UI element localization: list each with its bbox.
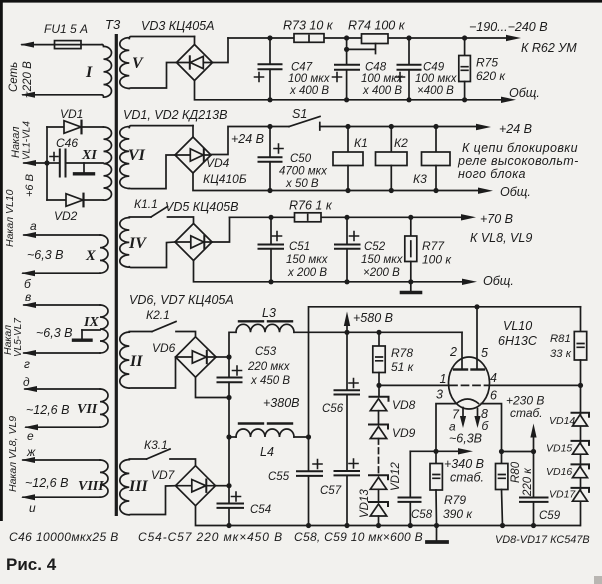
wire mains top (20, 42, 55, 48)
svg-text:К1.1: К1.1 (134, 197, 158, 211)
svg-text:VD8: VD8 (392, 398, 416, 412)
junction dots bottom rail (226, 523, 536, 528)
svg-text:X: X (85, 248, 96, 264)
wire bridge + to top rail (213, 38, 229, 63)
resistor R74 (rheostat) (344, 19, 406, 54)
svg-text:VD12: VD12 (390, 462, 402, 491)
wire bridge + up to +70V rail (212, 217, 230, 242)
svg-text:С55: С55 (268, 471, 290, 483)
svg-text:е: е (27, 429, 34, 443)
svg-text:100 мкх: 100 мкх (288, 73, 331, 85)
svg-text:VD9: VD9 (392, 426, 416, 440)
svg-text:~220 В: ~220 В (22, 61, 34, 98)
node VD6 plus (226, 354, 231, 359)
winding IV (120, 218, 147, 268)
node +6V left rail (22, 127, 50, 200)
winding II (120, 332, 143, 388)
svg-text:х 450 В: х 450 В (250, 375, 290, 387)
svg-text:~12,6 В: ~12,6 В (26, 403, 69, 417)
svg-text:С58, С59 10 мк×600 В: С58, С59 10 мк×600 В (294, 530, 423, 544)
svg-text:−190...−240 В: −190...−240 В (469, 20, 548, 34)
wire +24V rail (267, 124, 491, 130)
wire R81 to VD chain (580, 385, 582, 525)
svg-text:С57: С57 (320, 485, 342, 497)
svg-text:С46 10000мкх25 В: С46 10000мкх25 В (9, 530, 119, 544)
zener VD17 (549, 488, 589, 501)
svg-text:+6 В: +6 В (24, 174, 36, 197)
zener VD16 (546, 464, 589, 478)
zener VD15 (546, 441, 589, 455)
svg-text:Общ.: Общ. (483, 274, 514, 288)
wire winding III bottom to bridge left corner (129, 486, 175, 515)
wire top lead into bridge top (194, 37, 196, 45)
svg-text:390 к: 390 к (443, 507, 473, 521)
winding V (120, 37, 195, 89)
inductor L3 (236, 306, 294, 332)
wire bridge + up to +24V rail (211, 127, 289, 155)
wire VD7 minus to bottom rail (196, 506, 580, 526)
wire L3 out to +580 node (294, 331, 309, 333)
svg-text:С52: С52 (364, 241, 386, 253)
svg-text:х 400 В: х 400 В (362, 85, 402, 97)
bridge rectifier VD7 (176, 466, 216, 506)
capacitor C51 (259, 217, 329, 281)
capacitor C52 (335, 217, 404, 281)
svg-text:ж: ж (26, 445, 36, 459)
svg-text:R81: R81 (550, 333, 571, 345)
capacitor C55 (268, 460, 322, 526)
wire top rail -190V (228, 35, 521, 41)
svg-text:С49: С49 (423, 62, 445, 74)
capacitor C49 (396, 38, 458, 100)
tube grid dashed (440, 371, 498, 386)
svg-text:+24 В: +24 В (231, 132, 264, 146)
wire bridge + to bus node (216, 485, 230, 487)
svg-text:Общ.: Общ. (509, 86, 540, 100)
bridge rectifier VD3 (177, 45, 213, 81)
resistor R75 (459, 38, 507, 100)
svg-text:реле высоковольт-: реле высоковольт- (457, 154, 579, 168)
svg-text:150 мкх: 150 мкх (361, 254, 404, 266)
svg-text:стаб.: стаб. (510, 406, 543, 420)
svg-text:R78: R78 (391, 346, 413, 360)
svg-text:V: V (132, 55, 144, 72)
capacitor C56 (322, 332, 359, 415)
svg-text:х 50 В: х 50 В (285, 178, 319, 190)
svg-text:R75: R75 (476, 56, 498, 70)
net label Сеть ~220В (8, 61, 34, 98)
wire grid line to tube pin1 (379, 384, 449, 386)
capacitor C47 (255, 38, 331, 100)
svg-text:II: II (129, 353, 143, 370)
svg-text:Накал VL10: Накал VL10 (4, 189, 16, 247)
wire mains bottom (21, 92, 102, 98)
zener VD8 (370, 385, 416, 424)
wire winding VII bottom (24, 424, 100, 430)
svg-text:R77: R77 (422, 239, 445, 253)
winding XI (81, 127, 112, 200)
wire winding VII top (23, 386, 100, 392)
capacitor C57 (320, 395, 359, 526)
border top bar (0, 0, 602, 3)
zener VD9 (369, 425, 416, 441)
svg-text:4700 мкх: 4700 мкх (279, 166, 328, 178)
svg-text:КЦ410Б: КЦ410Б (203, 172, 247, 186)
svg-text:стаб.: стаб. (450, 471, 484, 485)
resistor R78 (373, 332, 415, 388)
capacitor C59 (520, 452, 561, 526)
svg-text:С54-С57 220 мк×450 В: С54-С57 220 мк×450 В (138, 530, 283, 544)
svg-text:Т3: Т3 (105, 17, 121, 32)
svg-text:620 к: 620 к (476, 69, 506, 83)
net labels +24В (231, 122, 579, 181)
switch contact K3.1 (129, 438, 170, 459)
svg-text:~6,3 В: ~6,3 В (27, 248, 64, 262)
svg-text:S1: S1 (292, 107, 307, 121)
svg-text:3: 3 (436, 388, 443, 402)
tube cathode pin6 (481, 389, 501, 452)
svg-text:VD1: VD1 (60, 107, 83, 121)
wire winding VIII bottom (21, 494, 100, 500)
wire +340 node line (410, 448, 484, 484)
net label Накал VL8,VL9 (7, 375, 69, 515)
wire bridge - to bottom rail Общ (195, 81, 517, 104)
net labels +70В К VL8,VL9 (470, 212, 532, 245)
zener VD12 (369, 462, 402, 502)
bridge rectifier VD5 (175, 224, 212, 261)
resistor R76 (289, 199, 333, 222)
wire node up to L3 (229, 332, 236, 357)
wire contact to bridge top (170, 459, 196, 466)
capacitor C48 (333, 49, 404, 99)
svg-text:VD6: VD6 (152, 341, 176, 355)
wire winding II bottom to bridge left corner (129, 358, 175, 389)
border left bar (0, 0, 3, 521)
node +230 arrow (506, 394, 544, 452)
svg-text:в: в (25, 290, 31, 304)
svg-text:Рис. 4: Рис. 4 (6, 555, 57, 574)
corner shade (594, 576, 602, 584)
capacitor C58 (399, 451, 433, 525)
svg-text:VD8-VD17 КС547В: VD8-VD17 КС547В (495, 534, 590, 546)
capacitor C46 (47, 136, 103, 177)
svg-text:и: и (29, 501, 36, 515)
svg-text:VD17: VD17 (549, 489, 576, 501)
svg-text:R76 1 к: R76 1 к (289, 199, 333, 213)
svg-text:ного блока: ного блока (458, 167, 526, 181)
node +580 arrow (344, 311, 393, 332)
svg-text:VD2: VD2 (54, 209, 78, 223)
svg-text:Накал VL8, VL9: Накал VL8, VL9 (7, 416, 19, 492)
svg-text:VL10: VL10 (503, 319, 532, 333)
tube cathode arc (457, 399, 479, 404)
svg-text:100 мкх: 100 мкх (415, 73, 458, 85)
diode VD1 (47, 107, 103, 133)
winding III (120, 460, 149, 515)
svg-text:×200 В: ×200 В (363, 267, 400, 279)
wire winding IX top (22, 302, 100, 308)
zener VD13 (359, 489, 388, 526)
wire winding IX bottom (22, 350, 100, 356)
svg-text:~6,3В: ~6,3В (449, 432, 482, 446)
svg-text:К3.1: К3.1 (144, 438, 168, 452)
wire top lead into bridge top (192, 126, 194, 137)
wire dashed omitted diodes VD10 VD11 (378, 439, 380, 476)
svg-text:VD6, VD7 КЦ405А: VD6, VD7 КЦ405А (129, 293, 234, 307)
svg-text:VD5 КЦ405В: VD5 КЦ405В (165, 200, 238, 214)
tube VL10 6Н13С (449, 319, 538, 409)
wire bridge - to bottom rail Общ row3 (194, 261, 478, 286)
wire winding X bottom (21, 270, 100, 276)
svg-text:VD1, VD2 КД213В: VD1, VD2 КД213В (123, 108, 227, 122)
svg-text:С53: С53 (255, 346, 277, 358)
diode VD2 (47, 194, 103, 223)
bridge rectifier VD6 (176, 337, 217, 377)
winding X (85, 235, 108, 273)
svg-text:К R62 УМ: К R62 УМ (521, 41, 577, 55)
svg-text:С48: С48 (365, 62, 387, 74)
svg-text:33 к: 33 к (550, 348, 572, 360)
fuse FU1 (44, 22, 88, 49)
relay K1 (333, 127, 368, 191)
svg-text:К1: К1 (354, 136, 368, 150)
net label -190...-240 В / К R62 УМ (469, 20, 577, 55)
svg-text:VD15: VD15 (546, 443, 572, 455)
svg-text:1: 1 (440, 372, 447, 386)
svg-text:а: а (30, 219, 37, 233)
switch contact K2.1 (129, 308, 176, 332)
capacitor C53 (218, 346, 291, 398)
svg-text:XI: XI (81, 148, 97, 163)
svg-text:R80: R80 (510, 461, 522, 483)
svg-text:Накал: Накал (10, 127, 22, 158)
tube heater arrows pins 7 8 (449, 407, 490, 446)
svg-text:IX: IX (83, 315, 99, 330)
svg-text:III: III (128, 478, 148, 495)
wire bridge + to node (216, 356, 229, 358)
ground under R77 (402, 282, 421, 293)
svg-text:д: д (23, 375, 30, 389)
wire C56 branch down (308, 332, 310, 471)
switch S1 (289, 107, 320, 130)
wire grid pin4 to R81 (490, 383, 584, 388)
svg-text:VI: VI (128, 147, 146, 164)
svg-text:+340 В: +340 В (444, 457, 484, 471)
switch contact K1.1 (129, 197, 167, 217)
net label Накал VL1-VL4 +6В (10, 121, 36, 197)
wire contact to bridge top (168, 217, 194, 224)
capacitor C50 (259, 127, 329, 191)
wire winding IV bottom to bridge left corner (129, 242, 175, 268)
wire VD6 minus to bus (196, 377, 232, 400)
transformer T3 core (105, 17, 121, 516)
svg-text:Общ.: Общ. (500, 185, 531, 199)
svg-text:К3: К3 (413, 172, 427, 186)
svg-text:I: I (85, 64, 93, 81)
resistor R73 (283, 19, 334, 43)
net label Накал VL5-VL7 (2, 290, 73, 371)
svg-text:х 400 В: х 400 В (289, 85, 329, 97)
svg-text:R79: R79 (444, 493, 466, 507)
svg-text:VD7: VD7 (151, 468, 176, 482)
svg-text:К VL8, VL9: К VL8, VL9 (470, 231, 532, 245)
ground main (427, 526, 447, 543)
chassis tap of IX (74, 330, 101, 340)
inductor L4 (229, 424, 294, 460)
svg-text:С47: С47 (291, 62, 313, 74)
chassis tap of XI (75, 163, 94, 174)
winding VII (77, 389, 108, 427)
svg-text:150 мкх: 150 мкх (286, 254, 329, 266)
wire winding VIII top (21, 457, 100, 463)
svg-text:VL1-VL4: VL1-VL4 (22, 121, 33, 160)
svg-text:С56: С56 (322, 403, 344, 415)
wire fuse to winding I (81, 44, 102, 46)
svg-text:R74 100 к: R74 100 к (348, 19, 406, 33)
wire bus down to VD7 plus (226, 398, 231, 489)
svg-text:VIII: VIII (78, 479, 104, 494)
svg-text:FU1 5 А: FU1 5 А (44, 22, 88, 36)
winding I (85, 45, 112, 98)
wire +580 top rail (309, 304, 581, 332)
svg-text:2: 2 (449, 345, 457, 359)
bridge rectifier VD4 (175, 137, 211, 173)
winding VIII (78, 460, 108, 497)
svg-text:С46: С46 (56, 136, 78, 150)
wire L4 out to +380 node (294, 434, 311, 439)
svg-text:+380В: +380В (263, 396, 300, 410)
wire pin6 node line (499, 449, 536, 454)
svg-text:~6,3 В: ~6,3 В (36, 326, 73, 340)
zener VD14 (549, 413, 589, 427)
svg-text:VD16: VD16 (546, 466, 572, 478)
svg-text:+580 В: +580 В (353, 311, 393, 325)
tube anode 5 (472, 307, 489, 370)
svg-text:×400 В: ×400 В (417, 85, 454, 97)
svg-text:IV: IV (128, 235, 147, 252)
svg-text:6Н13С: 6Н13С (498, 334, 538, 348)
svg-text:VL5-VL7: VL5-VL7 (13, 318, 24, 357)
svg-text:С58: С58 (411, 509, 433, 521)
svg-text:Сеть: Сеть (8, 62, 20, 92)
svg-text:L3: L3 (262, 306, 276, 320)
svg-text:L4: L4 (260, 445, 274, 459)
svg-text:К2.1: К2.1 (146, 308, 170, 322)
svg-text:К2: К2 (394, 136, 408, 150)
svg-text:VD3 КЦ405А: VD3 КЦ405А (141, 19, 214, 33)
svg-text:VD4: VD4 (206, 156, 230, 170)
bottom notes (9, 530, 590, 546)
relay K2 (376, 127, 409, 191)
tube anode 2 (449, 332, 467, 369)
svg-text:С54: С54 (250, 504, 271, 516)
svg-text:100 к: 100 к (422, 253, 452, 267)
wire +580 distribution line (309, 330, 463, 335)
svg-text:51 к: 51 к (391, 360, 415, 374)
svg-text:г: г (24, 357, 30, 371)
net label Накал VL10 (4, 189, 64, 291)
winding VI (120, 126, 193, 189)
svg-text:R73 10 к: R73 10 к (283, 19, 334, 33)
svg-text:VD13: VD13 (359, 489, 371, 518)
svg-text:6: 6 (490, 389, 497, 403)
svg-text:С50: С50 (290, 153, 312, 165)
svg-text:220 мкх: 220 мкх (247, 361, 291, 373)
tube cathode pin3 (436, 388, 457, 452)
svg-text:5: 5 (481, 346, 488, 360)
svg-text:VD14: VD14 (549, 415, 575, 427)
relay K3 (413, 127, 450, 191)
labels VD4 КЦ410Б (203, 156, 247, 186)
svg-text:VII: VII (77, 402, 98, 417)
wire bridge - to bottom rail Общ row2 (193, 173, 493, 194)
svg-text:~12,6 В: ~12,6 В (25, 476, 68, 490)
winding IX (83, 305, 108, 353)
svg-text:+70 В: +70 В (480, 212, 513, 226)
wire +70V rail (230, 214, 477, 220)
svg-text:С51: С51 (289, 241, 310, 253)
wire winding X top (22, 232, 100, 238)
wire winding V bottom to bridge left corner (129, 63, 176, 89)
svg-text:4: 4 (490, 371, 497, 385)
wire winding VI bottom to bridge left corner (129, 155, 175, 189)
svg-text:С59: С59 (539, 510, 561, 522)
svg-text:х 200 В: х 200 В (287, 267, 327, 279)
svg-text:+24 В: +24 В (499, 122, 532, 136)
resistor R77 (405, 217, 453, 281)
svg-text:К цепи блокировки: К цепи блокировки (462, 141, 578, 155)
svg-text:220 к: 220 к (522, 468, 534, 497)
resistor R79 (430, 451, 473, 525)
resistor R81 (550, 307, 587, 386)
svg-text:100 мкх: 100 мкх (361, 73, 404, 85)
capacitor C54 (218, 486, 272, 526)
wire contact to bridge top (176, 332, 196, 337)
resistor R80 (496, 452, 535, 526)
